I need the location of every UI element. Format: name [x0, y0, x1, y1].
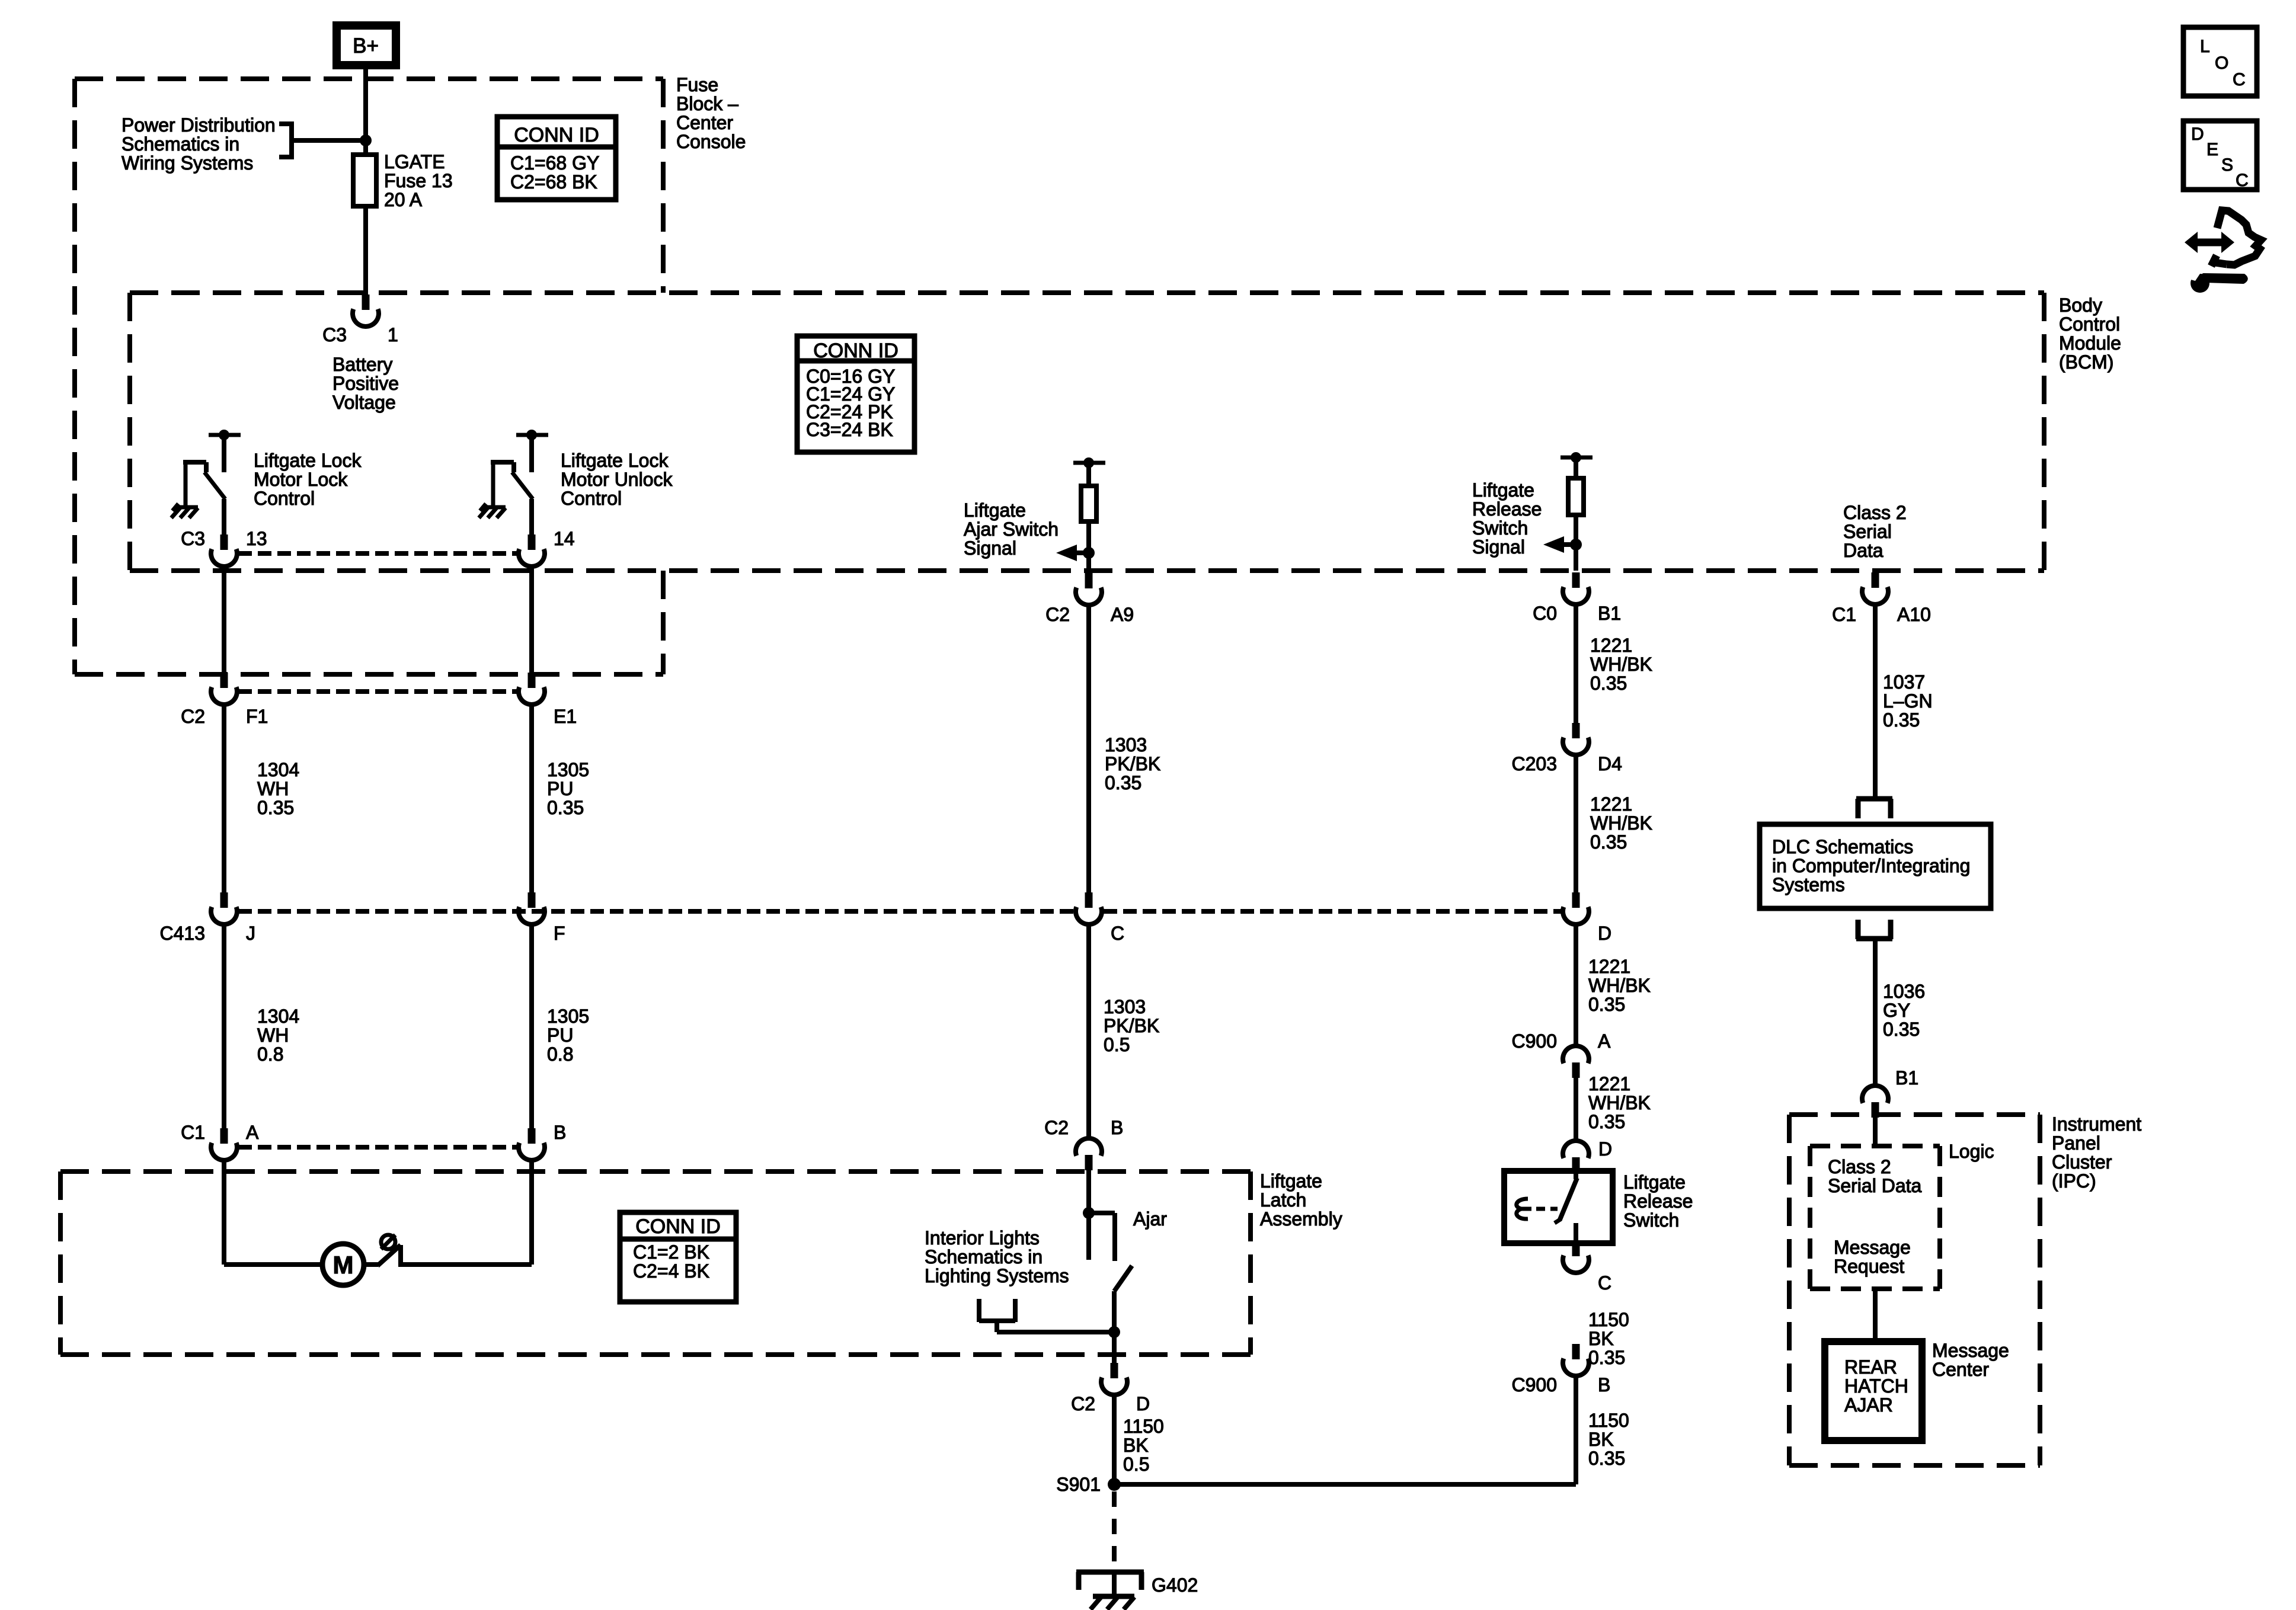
svg-text:C1=68 GY: C1=68 GY [510, 152, 599, 174]
svg-text:HATCH: HATCH [1844, 1375, 1908, 1397]
svg-text:1036: 1036 [1883, 981, 1925, 1002]
svg-text:E1: E1 [554, 706, 577, 727]
svg-text:0.35: 0.35 [1883, 709, 1920, 731]
svg-text:Block –: Block – [676, 93, 738, 114]
svg-text:C2=68 BK: C2=68 BK [510, 171, 597, 193]
svg-text:WH: WH [257, 1025, 289, 1046]
svg-text:D: D [1598, 923, 1611, 944]
svg-text:WH/BK: WH/BK [1590, 812, 1652, 834]
svg-text:Release: Release [1623, 1190, 1693, 1212]
svg-text:1221: 1221 [1590, 635, 1632, 656]
svg-text:C: C [2233, 70, 2246, 89]
svg-text:C0: C0 [1533, 603, 1557, 624]
svg-text:Voltage: Voltage [332, 392, 396, 413]
svg-text:A: A [1598, 1030, 1611, 1052]
svg-text:C: C [1598, 1272, 1611, 1294]
svg-text:BK: BK [1588, 1328, 1614, 1349]
svg-text:C3: C3 [322, 324, 347, 345]
svg-text:WH: WH [257, 778, 289, 799]
svg-text:0.35: 0.35 [1105, 772, 1141, 793]
svg-text:CONN ID: CONN ID [813, 340, 898, 362]
svg-text:AJAR: AJAR [1844, 1394, 1893, 1416]
svg-text:C413: C413 [160, 923, 206, 944]
svg-text:Release: Release [1472, 498, 1542, 520]
svg-text:Systems: Systems [1772, 874, 1845, 895]
svg-text:Assembly: Assembly [1260, 1208, 1342, 1230]
svg-text:C2: C2 [1044, 1117, 1069, 1138]
svg-text:F: F [554, 923, 565, 944]
svg-text:PU: PU [547, 778, 573, 799]
svg-text:B: B [554, 1122, 566, 1143]
svg-text:Message: Message [1834, 1237, 1911, 1258]
svg-text:WH/BK: WH/BK [1588, 1092, 1651, 1113]
svg-text:Cluster: Cluster [2052, 1151, 2112, 1173]
svg-text:0.35: 0.35 [1590, 673, 1627, 694]
svg-text:Control: Control [561, 488, 622, 509]
svg-text:Fuse 13: Fuse 13 [384, 170, 453, 191]
svg-text:GY: GY [1883, 1000, 1910, 1021]
svg-text:L–GN: L–GN [1883, 690, 1933, 712]
svg-text:Serial Data: Serial Data [1828, 1175, 1922, 1196]
svg-text:0.5: 0.5 [1104, 1034, 1130, 1055]
svg-text:PK/BK: PK/BK [1105, 753, 1160, 774]
svg-text:1304: 1304 [257, 1006, 299, 1027]
svg-text:DLC Schematics: DLC Schematics [1772, 836, 1913, 857]
svg-text:Schematics in: Schematics in [121, 133, 239, 155]
svg-text:Liftgate: Liftgate [1472, 479, 1534, 501]
svg-text:0.35: 0.35 [1588, 994, 1625, 1015]
svg-text:(IPC): (IPC) [2052, 1170, 2096, 1192]
svg-text:C2: C2 [1045, 604, 1070, 625]
svg-text:Ajar: Ajar [1133, 1208, 1167, 1230]
svg-text:L: L [2200, 37, 2210, 56]
svg-text:B+: B+ [353, 34, 379, 57]
svg-text:PK/BK: PK/BK [1104, 1015, 1159, 1036]
svg-text:E: E [2207, 140, 2218, 159]
svg-text:1304: 1304 [257, 759, 299, 780]
svg-text:B: B [1111, 1117, 1123, 1138]
svg-text:WH/BK: WH/BK [1588, 975, 1651, 996]
svg-text:WH/BK: WH/BK [1590, 654, 1652, 675]
svg-text:LGATE: LGATE [384, 151, 445, 172]
svg-text:BK: BK [1123, 1435, 1149, 1456]
svg-text:C203: C203 [1512, 753, 1558, 774]
svg-text:S901: S901 [1056, 1474, 1101, 1495]
svg-text:G402: G402 [1152, 1574, 1198, 1596]
svg-text:Center: Center [676, 112, 733, 133]
svg-text:Liftgate Lock: Liftgate Lock [254, 450, 362, 471]
svg-text:Liftgate Lock: Liftgate Lock [561, 450, 669, 471]
svg-text:1150: 1150 [1588, 1410, 1629, 1431]
svg-text:A: A [246, 1122, 259, 1143]
svg-text:C: C [2236, 171, 2249, 190]
svg-text:D: D [1136, 1393, 1150, 1414]
svg-text:Module: Module [2059, 332, 2121, 354]
svg-text:Switch: Switch [1472, 517, 1528, 539]
svg-text:Panel: Panel [2052, 1132, 2100, 1154]
svg-text:C1=2 BK: C1=2 BK [633, 1241, 709, 1263]
svg-text:1150: 1150 [1123, 1416, 1164, 1437]
svg-text:Fuse: Fuse [676, 74, 718, 95]
svg-text:1: 1 [388, 324, 398, 345]
svg-text:D: D [1598, 1138, 1612, 1160]
svg-text:Lighting Systems: Lighting Systems [925, 1265, 1069, 1286]
svg-text:C3=24 BK: C3=24 BK [806, 419, 893, 440]
svg-text:1305: 1305 [547, 1006, 589, 1027]
svg-text:14: 14 [554, 528, 575, 549]
svg-text:1221: 1221 [1588, 1073, 1630, 1094]
svg-text:BK: BK [1588, 1429, 1614, 1450]
svg-text:Liftgate: Liftgate [1623, 1172, 1686, 1193]
svg-text:13: 13 [246, 528, 267, 549]
svg-text:Request: Request [1834, 1256, 1904, 1277]
svg-text:in Computer/Integrating: in Computer/Integrating [1772, 855, 1970, 876]
svg-text:J: J [246, 923, 255, 944]
svg-text:C: C [1111, 923, 1124, 944]
svg-text:D4: D4 [1598, 753, 1622, 774]
svg-text:20 A: 20 A [384, 189, 423, 210]
svg-text:Class 2: Class 2 [1828, 1156, 1891, 1177]
svg-text:C1: C1 [181, 1122, 205, 1143]
svg-text:Instrument: Instrument [2052, 1113, 2141, 1135]
svg-text:Battery: Battery [332, 354, 392, 375]
svg-text:B1: B1 [1598, 603, 1621, 624]
svg-text:Motor Lock: Motor Lock [254, 469, 348, 490]
svg-text:Wiring Systems: Wiring Systems [121, 152, 253, 174]
svg-text:0.35: 0.35 [1588, 1111, 1625, 1132]
svg-text:C900: C900 [1512, 1374, 1558, 1395]
svg-text:Serial: Serial [1843, 521, 1892, 542]
svg-text:C3: C3 [181, 528, 205, 549]
svg-text:Center: Center [1932, 1359, 1989, 1380]
svg-text:1150: 1150 [1588, 1309, 1629, 1330]
svg-text:0.35: 0.35 [1590, 831, 1627, 853]
svg-text:1303: 1303 [1105, 734, 1147, 756]
svg-text:D: D [2191, 124, 2204, 144]
svg-text:1221: 1221 [1590, 793, 1632, 815]
svg-text:Console: Console [676, 131, 746, 152]
svg-text:CONN ID: CONN ID [514, 124, 599, 146]
svg-text:0.35: 0.35 [547, 797, 584, 818]
svg-text:Liftgate: Liftgate [1260, 1170, 1322, 1192]
svg-text:(BCM): (BCM) [2059, 351, 2113, 373]
svg-text:Schematics in: Schematics in [925, 1246, 1043, 1267]
svg-text:F1: F1 [246, 706, 268, 727]
svg-text:1037: 1037 [1883, 671, 1925, 693]
svg-text:M: M [333, 1251, 354, 1279]
svg-text:0.35: 0.35 [1588, 1347, 1625, 1368]
svg-text:C2: C2 [1071, 1393, 1095, 1414]
svg-text:0.5: 0.5 [1123, 1454, 1149, 1475]
svg-text:Control: Control [2059, 313, 2120, 335]
svg-text:0.35: 0.35 [1588, 1448, 1625, 1469]
svg-text:C2: C2 [181, 706, 205, 727]
svg-text:Class 2: Class 2 [1843, 502, 1907, 523]
svg-text:Data: Data [1843, 540, 1884, 561]
svg-text:C2=4 BK: C2=4 BK [633, 1260, 709, 1282]
svg-text:B: B [1598, 1374, 1610, 1395]
svg-text:Body: Body [2059, 295, 2102, 316]
svg-text:0.8: 0.8 [547, 1044, 573, 1065]
svg-text:Control: Control [254, 488, 315, 509]
svg-text:C900: C900 [1512, 1030, 1558, 1052]
svg-text:0.35: 0.35 [257, 797, 294, 818]
svg-text:PU: PU [547, 1025, 573, 1046]
svg-text:C1: C1 [1832, 604, 1856, 625]
svg-text:CONN ID: CONN ID [635, 1215, 721, 1238]
svg-text:Ajar Switch: Ajar Switch [964, 518, 1059, 540]
svg-text:Message: Message [1932, 1340, 2009, 1361]
svg-text:Positive: Positive [332, 373, 399, 394]
svg-text:Switch: Switch [1623, 1209, 1679, 1231]
svg-text:Power Distribution: Power Distribution [121, 114, 276, 136]
svg-text:Latch: Latch [1260, 1189, 1306, 1211]
svg-text:S: S [2221, 155, 2233, 175]
svg-text:A9: A9 [1111, 604, 1134, 625]
svg-text:Liftgate: Liftgate [964, 500, 1026, 521]
svg-text:1221: 1221 [1588, 956, 1630, 977]
svg-text:REAR: REAR [1844, 1356, 1897, 1378]
svg-text:Logic: Logic [1949, 1141, 1994, 1162]
svg-text:O: O [2215, 53, 2228, 73]
svg-text:Motor Unlock: Motor Unlock [561, 469, 673, 490]
svg-text:A10: A10 [1897, 604, 1931, 625]
svg-text:Signal: Signal [964, 537, 1016, 559]
svg-text:Interior Lights: Interior Lights [925, 1227, 1040, 1249]
svg-text:B1: B1 [1895, 1067, 1918, 1089]
svg-text:1305: 1305 [547, 759, 589, 780]
svg-text:1303: 1303 [1104, 996, 1146, 1017]
svg-text:Signal: Signal [1472, 536, 1525, 558]
svg-text:0.8: 0.8 [257, 1044, 283, 1065]
svg-text:0.35: 0.35 [1883, 1019, 1920, 1040]
